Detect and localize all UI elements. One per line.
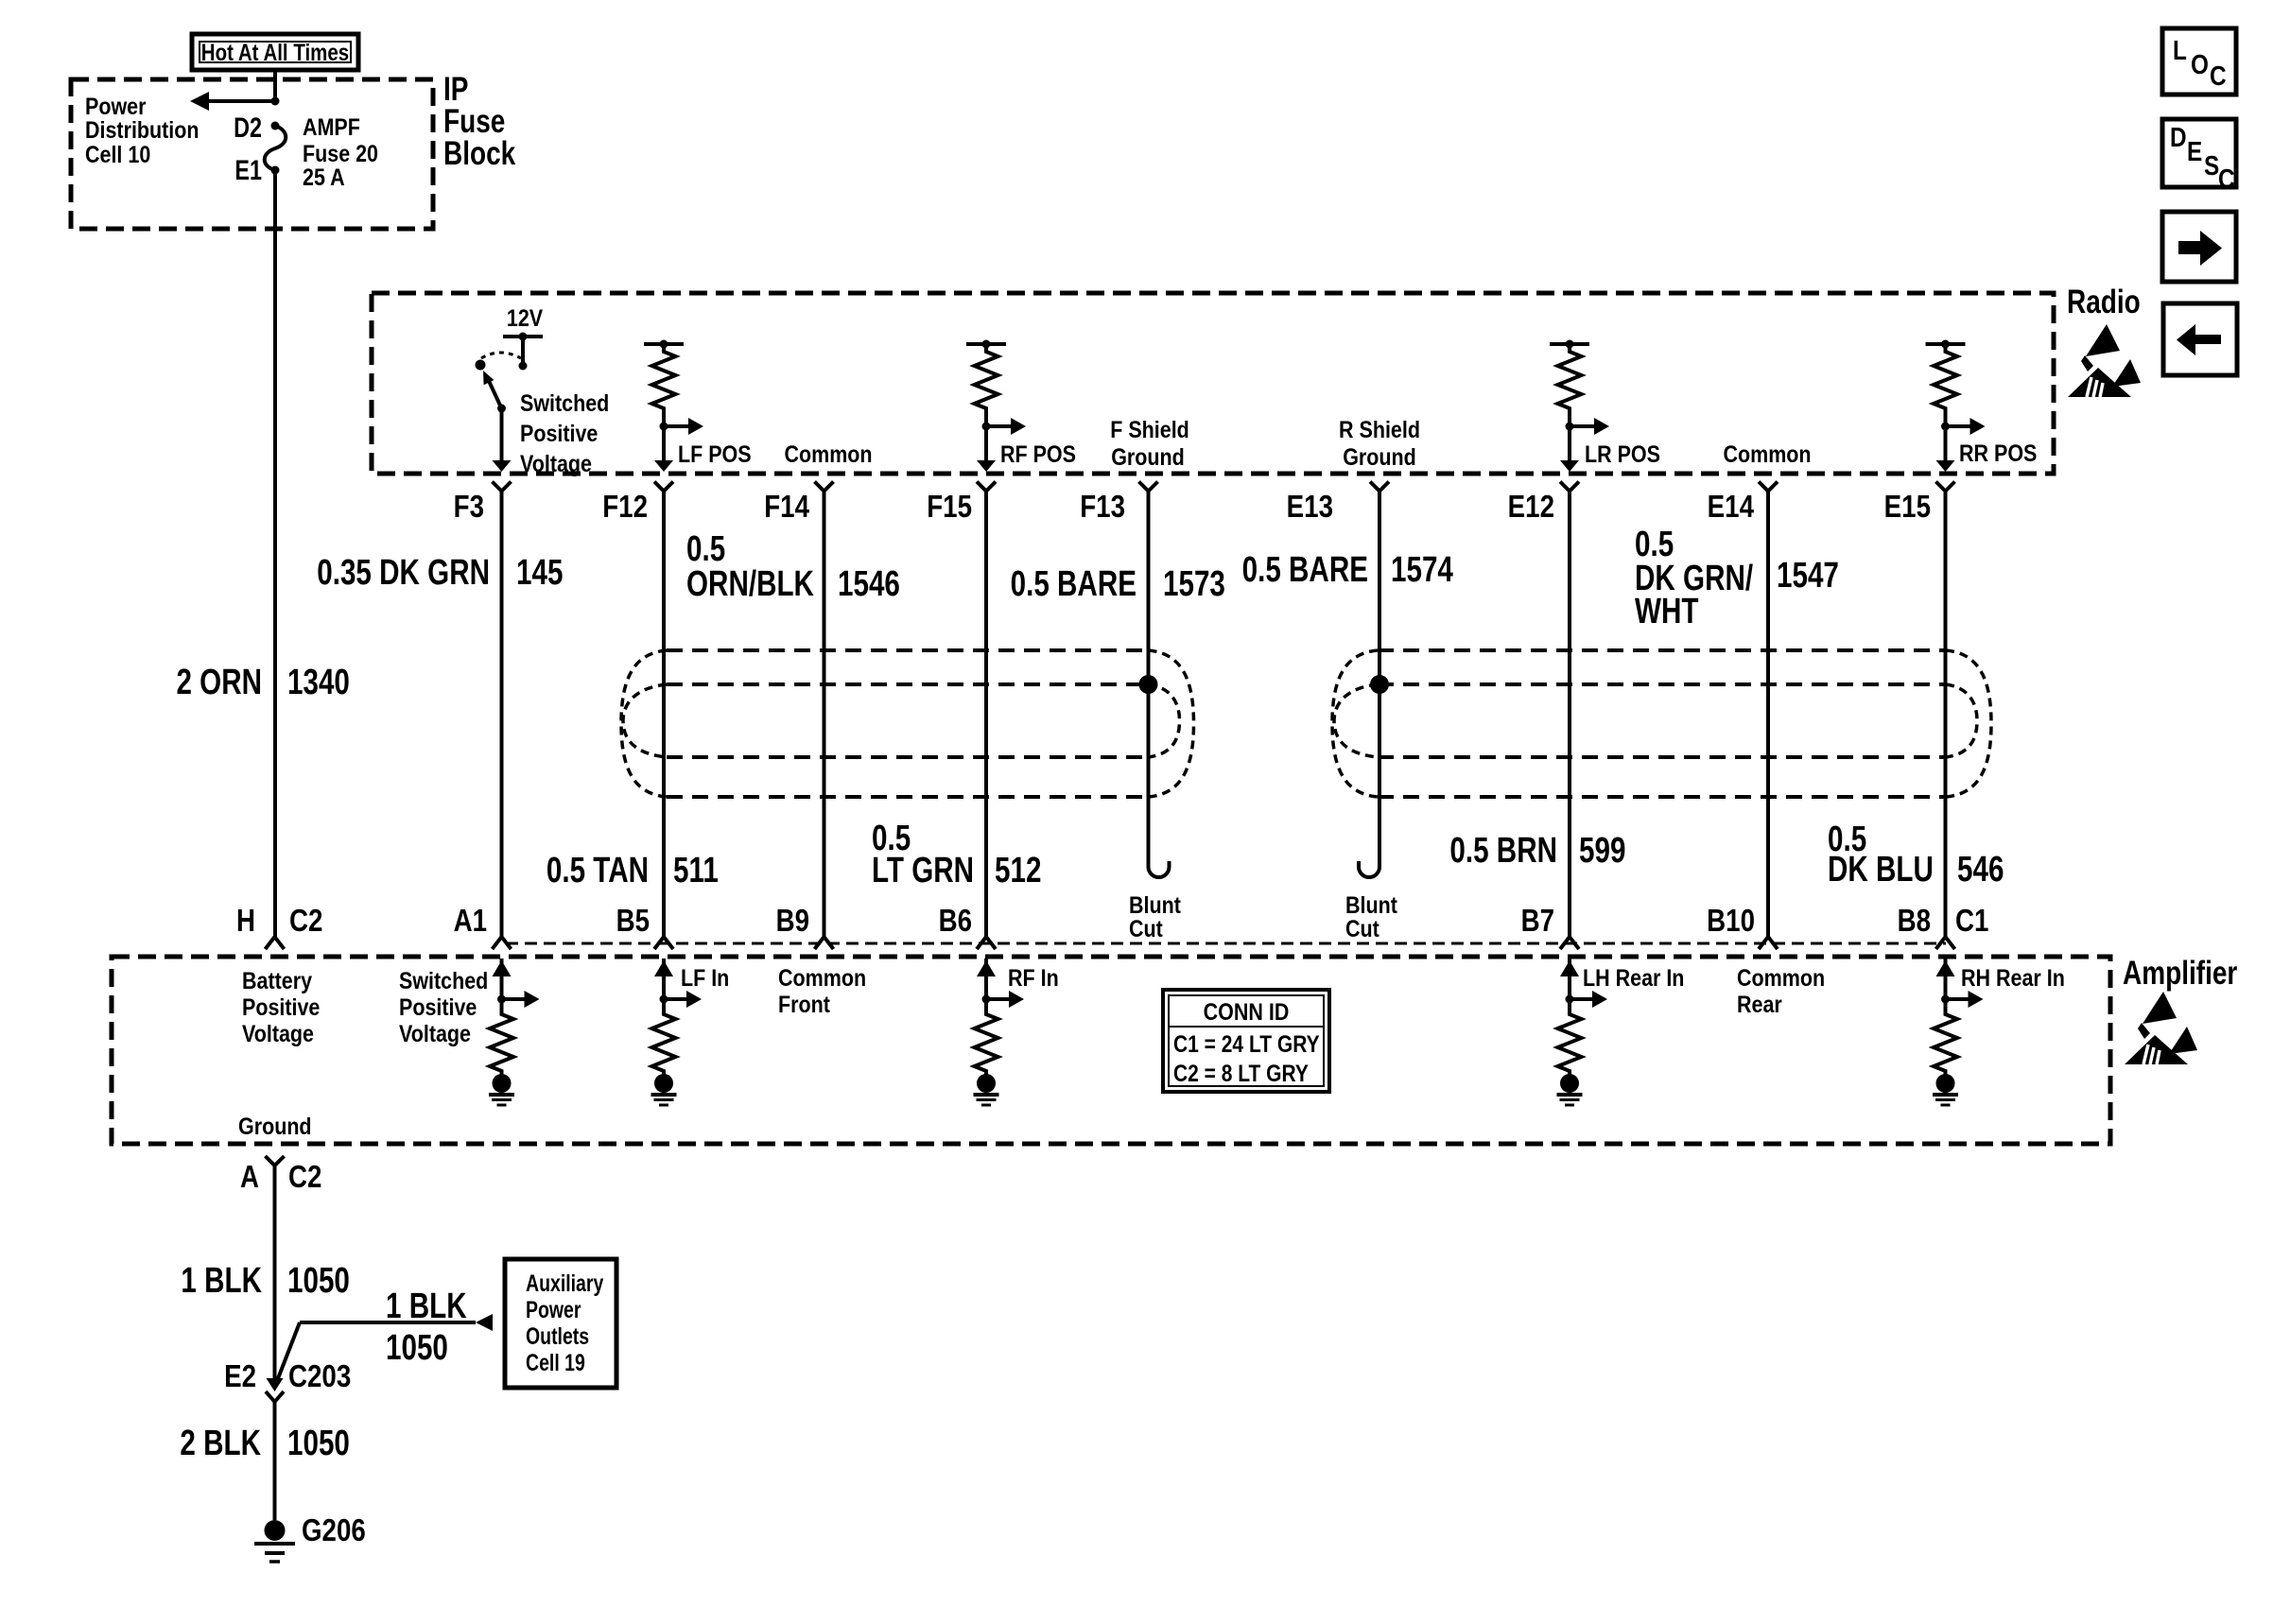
svg-text:B9: B9 <box>776 904 809 939</box>
svg-text:0.5 BRN: 0.5 BRN <box>1449 831 1557 871</box>
svg-text:C1 = 24 LT GRY: C1 = 24 LT GRY <box>1173 1030 1320 1057</box>
svg-text:Voltage: Voltage <box>399 1020 471 1046</box>
svg-text:0.5 TAN: 0.5 TAN <box>547 851 649 890</box>
svg-text:RH Rear In: RH Rear In <box>1961 964 2065 991</box>
svg-text:DK BLU: DK BLU <box>1828 850 1934 890</box>
svg-text:Block: Block <box>443 134 516 172</box>
svg-text:25 A: 25 A <box>303 164 345 190</box>
svg-text:Radio: Radio <box>2067 283 2141 320</box>
svg-text:Auxiliary: Auxiliary <box>526 1270 604 1297</box>
svg-text:R Shield: R Shield <box>1339 416 1420 442</box>
svg-text:Positive: Positive <box>399 993 477 1020</box>
svg-text:Blunt: Blunt <box>1345 891 1397 918</box>
svg-text:C203: C203 <box>288 1359 351 1394</box>
svg-text:1050: 1050 <box>287 1261 350 1301</box>
svg-text:C1: C1 <box>1955 904 1988 939</box>
svg-text:Blunt: Blunt <box>1129 891 1181 918</box>
svg-text:A: A <box>240 1160 259 1195</box>
svg-text:LR POS: LR POS <box>1585 441 1660 467</box>
svg-text:C2: C2 <box>289 904 322 939</box>
svg-text:ORN/BLK: ORN/BLK <box>686 564 814 604</box>
svg-text:E14: E14 <box>1708 490 1754 525</box>
svg-text:E13: E13 <box>1287 490 1333 525</box>
svg-text:Positive: Positive <box>520 420 598 446</box>
svg-text:WHT: WHT <box>1635 592 1699 631</box>
svg-text:2 ORN: 2 ORN <box>176 663 262 702</box>
svg-text:Cut: Cut <box>1345 915 1379 942</box>
svg-text:RF In: RF In <box>1008 964 1059 991</box>
svg-text:Power: Power <box>526 1297 581 1323</box>
svg-text:F12: F12 <box>602 490 648 525</box>
svg-text:1546: 1546 <box>838 564 900 604</box>
svg-text:0.5 BARE: 0.5 BARE <box>1011 564 1136 604</box>
svg-text:1050: 1050 <box>287 1424 350 1463</box>
svg-text:B6: B6 <box>939 904 972 939</box>
svg-text:Fuse 20: Fuse 20 <box>303 140 378 166</box>
svg-text:LF POS: LF POS <box>678 441 752 467</box>
svg-text:E2: E2 <box>224 1359 256 1394</box>
svg-text:F14: F14 <box>764 490 809 525</box>
svg-text:B7: B7 <box>1521 904 1554 939</box>
svg-text:B8: B8 <box>1898 904 1931 939</box>
svg-text:C2: C2 <box>288 1160 321 1195</box>
svg-text:Cell 10: Cell 10 <box>85 141 150 167</box>
svg-text:LT GRN: LT GRN <box>872 851 974 890</box>
svg-text:Ground: Ground <box>1111 443 1185 470</box>
svg-text:RF POS: RF POS <box>1000 441 1076 467</box>
svg-text:599: 599 <box>1579 831 1625 871</box>
svg-text:C: C <box>2210 60 2227 91</box>
svg-text:12V: 12V <box>507 304 544 331</box>
svg-text:A1: A1 <box>454 904 487 939</box>
svg-text:Rear: Rear <box>1737 991 1782 1017</box>
svg-text:Common: Common <box>1737 964 1825 991</box>
svg-text:511: 511 <box>673 851 719 890</box>
svg-text:Cut: Cut <box>1129 915 1163 942</box>
svg-text:F15: F15 <box>927 490 972 525</box>
svg-text:E: E <box>2187 136 2202 166</box>
svg-text:Switched: Switched <box>399 967 488 993</box>
svg-text:Distribution: Distribution <box>85 116 200 143</box>
svg-text:Common: Common <box>778 964 866 991</box>
svg-text:F3: F3 <box>454 490 484 525</box>
svg-text:AMPF: AMPF <box>303 113 360 140</box>
svg-text:2 BLK: 2 BLK <box>180 1424 261 1463</box>
svg-text:Battery: Battery <box>242 967 312 993</box>
svg-text:D2: D2 <box>234 112 262 143</box>
svg-text:1547: 1547 <box>1777 556 1839 596</box>
svg-text:Voltage: Voltage <box>242 1020 314 1046</box>
svg-text:LF In: LF In <box>681 964 729 991</box>
svg-text:LH Rear In: LH Rear In <box>1583 964 1684 991</box>
svg-text:546: 546 <box>1957 850 2004 890</box>
svg-text:Hot At All Times: Hot At All Times <box>201 39 349 65</box>
svg-text:C: C <box>2218 164 2235 194</box>
svg-text:Voltage: Voltage <box>520 450 592 476</box>
svg-text:Common: Common <box>1723 441 1811 467</box>
svg-text:145: 145 <box>516 553 563 593</box>
svg-text:Amplifier: Amplifier <box>2123 954 2237 992</box>
svg-text:0.35 DK GRN: 0.35 DK GRN <box>317 553 490 593</box>
svg-text:1050: 1050 <box>386 1328 448 1368</box>
svg-text:Power: Power <box>85 93 146 119</box>
svg-text:1340: 1340 <box>287 663 350 702</box>
svg-text:512: 512 <box>995 851 1041 890</box>
svg-text:1 BLK: 1 BLK <box>181 1261 262 1301</box>
svg-text:CONN ID: CONN ID <box>1204 998 1290 1025</box>
svg-text:Ground: Ground <box>238 1113 312 1139</box>
svg-text:E12: E12 <box>1508 490 1554 525</box>
svg-text:E1: E1 <box>234 154 262 185</box>
svg-text:O: O <box>2191 49 2209 79</box>
svg-text:F13: F13 <box>1080 490 1125 525</box>
svg-text:Ground: Ground <box>1343 443 1416 470</box>
svg-text:1573: 1573 <box>1163 564 1225 604</box>
svg-text:Positive: Positive <box>242 993 320 1020</box>
svg-text:1574: 1574 <box>1391 550 1453 590</box>
svg-text:Front: Front <box>778 991 830 1017</box>
svg-text:Cell 19: Cell 19 <box>526 1350 585 1376</box>
svg-text:S: S <box>2204 150 2219 181</box>
svg-text:D: D <box>2170 122 2187 152</box>
svg-text:E15: E15 <box>1884 490 1931 525</box>
svg-text:Outlets: Outlets <box>526 1323 589 1350</box>
svg-text:0.5 BARE: 0.5 BARE <box>1242 550 1368 590</box>
svg-text:RR POS: RR POS <box>1959 440 2037 466</box>
svg-text:F Shield: F Shield <box>1110 416 1189 442</box>
svg-text:H: H <box>236 904 255 939</box>
svg-text:C2 = 8 LT GRY: C2 = 8 LT GRY <box>1173 1060 1309 1086</box>
svg-text:Common: Common <box>784 441 872 467</box>
svg-text:B5: B5 <box>616 904 650 939</box>
svg-text:G206: G206 <box>302 1513 366 1548</box>
svg-text:1 BLK: 1 BLK <box>386 1287 467 1326</box>
svg-text:L: L <box>2173 35 2187 65</box>
svg-text:Switched: Switched <box>520 389 609 416</box>
svg-text:B10: B10 <box>1707 904 1755 939</box>
